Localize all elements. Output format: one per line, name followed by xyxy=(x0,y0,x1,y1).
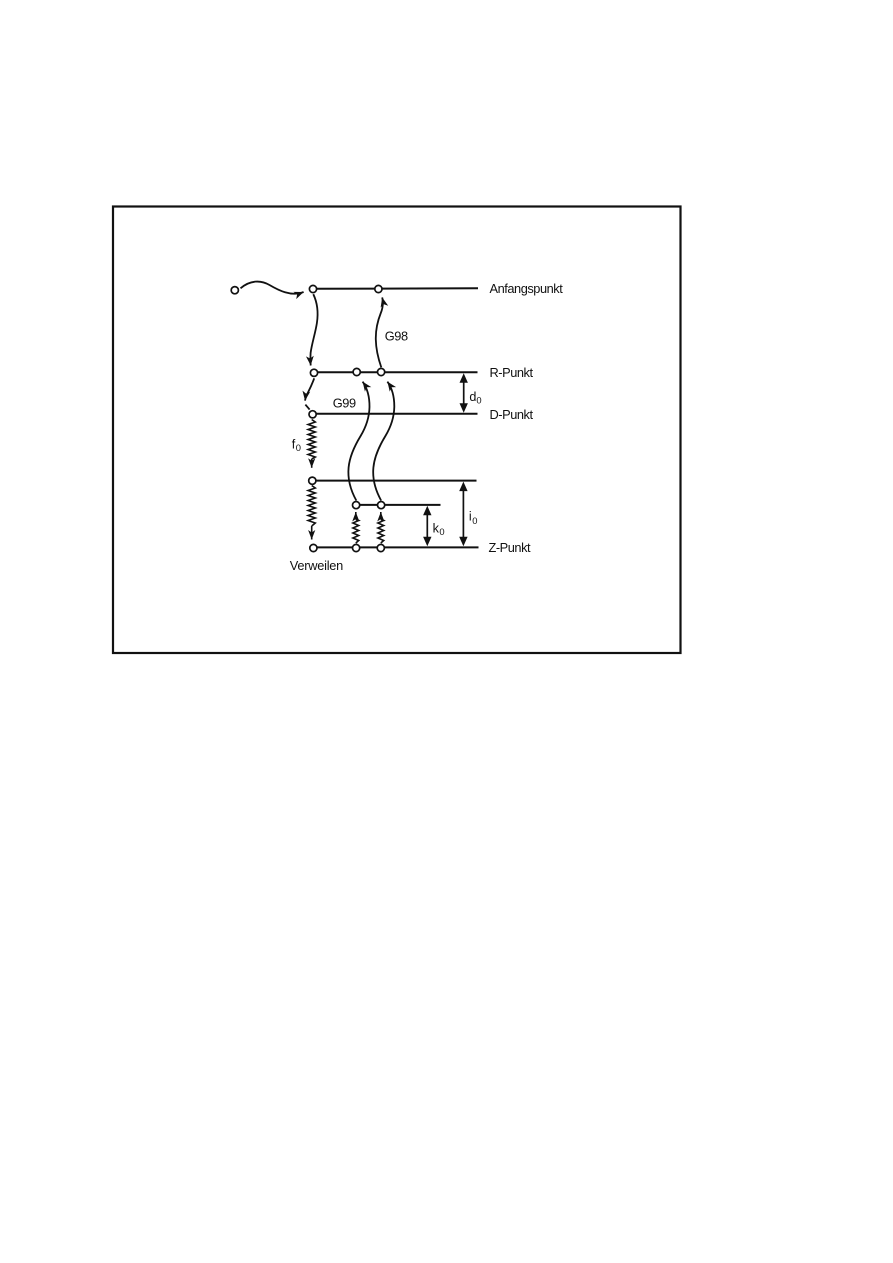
Z-Punkt level line xyxy=(313,546,479,548)
node second peck start left xyxy=(353,502,360,509)
dimension arrow i0 between first peck line and Z-Punkt xyxy=(459,482,467,547)
node Z-Punkt left xyxy=(310,544,317,551)
label k0 xyxy=(433,522,445,538)
svg-text:R-Punkt: R-Punkt xyxy=(490,365,534,380)
node second peck start right xyxy=(378,502,385,509)
node Anfangspunkt left xyxy=(309,285,316,292)
node first peck bottom xyxy=(309,477,316,484)
long retract curve to R-Punkt (right) xyxy=(373,382,394,501)
label f0 xyxy=(292,437,301,453)
label G98 xyxy=(385,329,408,344)
label Verweilen xyxy=(290,558,343,573)
svg-text:0: 0 xyxy=(476,395,481,406)
node R-Punkt right xyxy=(378,368,385,375)
node Z-Punkt middle xyxy=(353,544,360,551)
svg-text:Anfangspunkt: Anfangspunkt xyxy=(490,281,564,296)
node Z-Punkt right xyxy=(377,544,384,551)
G98 retract curve R-Punkt to Anfangspunkt xyxy=(376,297,383,367)
label i0 xyxy=(469,509,478,526)
feed zigzag up-arrow at second peck (right) xyxy=(378,512,384,543)
wavy rapid arrow Anfangspunkt to R-Punkt xyxy=(310,294,317,365)
svg-text:D-Punkt: D-Punkt xyxy=(490,407,534,422)
label d0 xyxy=(469,390,481,406)
wavy arrow R-Punkt to D-Punkt xyxy=(305,378,314,409)
node R-Punkt left xyxy=(310,369,317,376)
svg-text:d: d xyxy=(469,390,476,404)
first peck bottom level line xyxy=(312,480,477,482)
svg-text:Verweilen: Verweilen xyxy=(290,558,343,573)
svg-text:G99: G99 xyxy=(333,396,356,411)
start node xyxy=(231,287,238,294)
feed zigzag up-arrow at second peck (left) xyxy=(353,512,359,543)
svg-text:0: 0 xyxy=(296,442,301,453)
dimension arrow k0 between second peck line and Z-Punkt xyxy=(423,506,431,546)
feed zigzag f0 from D-Punkt down xyxy=(308,420,315,468)
Anfangspunkt level line xyxy=(313,287,478,290)
svg-text:0: 0 xyxy=(472,515,477,526)
dimension arrow d0 between R-Punkt and D-Punkt xyxy=(460,373,468,413)
node D-Punkt xyxy=(309,411,316,418)
figure frame xyxy=(113,207,681,654)
svg-text:Z-Punkt: Z-Punkt xyxy=(489,540,532,555)
D-Punkt level line xyxy=(312,413,478,415)
feed zigzag second peck down to Z-Punkt xyxy=(308,486,315,540)
rapid S-curve from start node to Anfangspunkt node xyxy=(241,282,304,294)
label Anfangspunkt xyxy=(490,281,564,296)
label Z-Punkt xyxy=(489,540,532,555)
node R-Punkt middle xyxy=(353,368,360,375)
second peck start level line (k0 level) xyxy=(356,504,441,506)
label D-Punkt xyxy=(490,407,534,422)
svg-text:G98: G98 xyxy=(385,329,408,344)
R-Punkt level line xyxy=(314,371,478,373)
label G99 xyxy=(333,396,356,411)
long retract curve to R-Punkt (left) xyxy=(348,382,369,501)
svg-text:0: 0 xyxy=(439,526,444,537)
node Anfangspunkt right xyxy=(375,285,382,292)
label R-Punkt xyxy=(490,365,534,380)
